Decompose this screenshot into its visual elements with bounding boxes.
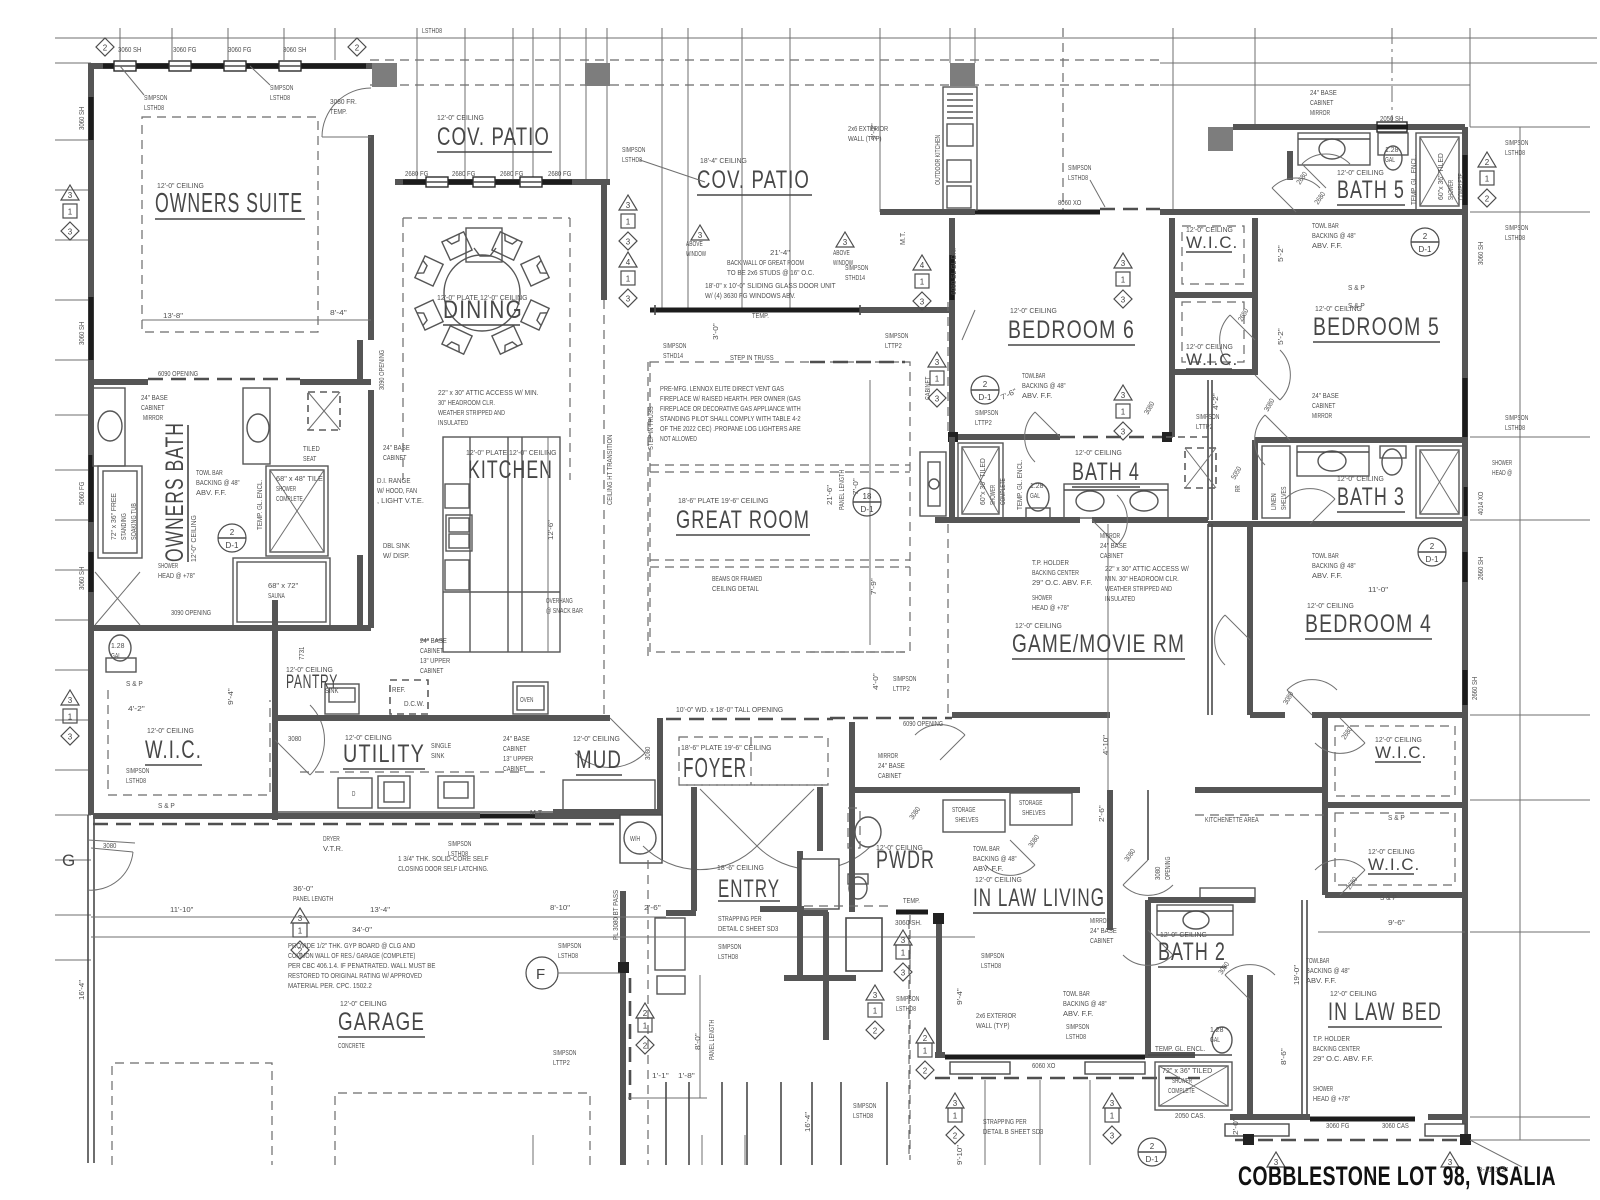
svg-text:3: 3 <box>1121 259 1126 268</box>
window 4014 XO right <box>1463 487 1468 516</box>
svg-text:4: 4 <box>920 261 925 270</box>
svg-text:12'-0" CEILING: 12'-0" CEILING <box>1160 930 1207 939</box>
svg-text:3060 SH: 3060 SH <box>1476 242 1485 265</box>
svg-text:OWNERS SUITE: OWNERS SUITE <box>155 187 303 218</box>
svg-text:3: 3 <box>68 733 73 742</box>
post: patio column C <box>950 63 975 86</box>
wall: bedroom6 south <box>952 434 1060 440</box>
svg-text:8'-4": 8'-4" <box>330 308 347 317</box>
svg-text:LSTHD8: LSTHD8 <box>896 1004 916 1013</box>
svg-text:3060 CAS: 3060 CAS <box>1382 1121 1409 1130</box>
svg-text:24" BASE: 24" BASE <box>1090 926 1117 935</box>
outdoor kitchen unit <box>943 87 977 210</box>
window 2050 SH <box>1377 122 1407 132</box>
bath5 door arcs <box>1272 188 1296 212</box>
wall: outdoor kitchen / north wall y212 <box>880 209 975 215</box>
svg-text:1: 1 <box>1110 1112 1115 1121</box>
svg-text:2: 2 <box>298 947 303 956</box>
svg-text:11'-0": 11'-0" <box>1368 585 1389 594</box>
svg-text:W.I.C.: W.I.C. <box>145 736 202 764</box>
svg-text:STORAGE: STORAGE <box>1019 800 1043 807</box>
svg-text:BACKING @ 48": BACKING @ 48" <box>196 478 240 487</box>
svg-text:9'-4": 9'-4" <box>955 988 964 1005</box>
svg-text:1: 1 <box>1121 408 1126 417</box>
svg-text:TILED: TILED <box>303 444 320 453</box>
svg-text:3: 3 <box>920 298 925 307</box>
svg-text:18: 18 <box>863 492 872 501</box>
svg-text:LTTP2: LTTP2 <box>885 341 902 350</box>
svg-text:12'-0" CEILING: 12'-0" CEILING <box>1010 306 1057 315</box>
svg-text:3060 SH: 3060 SH <box>77 567 86 590</box>
svg-text:1: 1 <box>643 1022 648 1031</box>
svg-text:DETAIL B SHEET SD3: DETAIL B SHEET SD3 <box>983 1127 1043 1136</box>
svg-text:1'-8": 1'-8" <box>678 1071 695 1080</box>
svg-text:REF.: REF. <box>392 685 405 694</box>
bath3 linen shelves <box>1262 446 1290 518</box>
svg-text:SIMPSON: SIMPSON <box>718 942 741 951</box>
wall: in-law living south + 6060 XO <box>935 1052 945 1058</box>
svg-text:SIMPSON: SIMPSON <box>853 1101 876 1110</box>
svg-text:11'-10": 11'-10" <box>170 905 194 914</box>
window glyph <box>224 61 246 71</box>
wall: bedroom5 south / bath3 north <box>1255 437 1465 443</box>
svg-text:HEAD @: HEAD @ <box>1492 468 1512 477</box>
owners bath vanity1 <box>93 388 125 466</box>
svg-text:BACK WALL OF GREAT ROOM: BACK WALL OF GREAT ROOM <box>727 258 804 267</box>
svg-text:BACKING CENTER: BACKING CENTER <box>1313 1044 1360 1053</box>
svg-text:SHOWER: SHOWER <box>1448 180 1455 200</box>
wire: patio roof dashed lines <box>370 59 1160 61</box>
svg-text:2: 2 <box>923 1034 928 1043</box>
svg-text:TEMP.: TEMP. <box>752 311 769 320</box>
svg-text:TEMP. GL. ENCL.: TEMP. GL. ENCL. <box>1155 1046 1205 1053</box>
window TEMP 3060SH <box>896 910 928 915</box>
svg-text:4'-0": 4'-0" <box>871 673 880 690</box>
svg-text:INSULATED: INSULATED <box>1105 594 1135 603</box>
sauna <box>233 558 330 626</box>
svg-text:TEMP.: TEMP. <box>903 896 920 905</box>
svg-text:D.I. RANGE: D.I. RANGE <box>377 476 411 485</box>
svg-text:1: 1 <box>68 208 73 217</box>
svg-text:CABINET: CABINET <box>383 453 407 462</box>
wall: hall south y718 <box>830 717 952 720</box>
bath2 shower <box>1155 1062 1232 1110</box>
svg-text:2660 SH: 2660 SH <box>1476 557 1485 580</box>
svg-text:SEAT: SEAT <box>303 454 317 463</box>
wall: wic/pantry divider <box>272 600 278 820</box>
svg-text:ABV. F.F.: ABV. F.F. <box>196 488 226 497</box>
bath5 toilet <box>1378 133 1408 155</box>
svg-text:D-1: D-1 <box>1419 245 1432 254</box>
dining dashed ceiling <box>402 218 404 480</box>
door arcs bath2 <box>1148 930 1173 955</box>
svg-text:4: 4 <box>626 258 631 267</box>
svg-text:24" BASE: 24" BASE <box>503 734 530 743</box>
bath4/hall pocket door dash <box>1166 436 1208 438</box>
svg-text:UTILITY: UTILITY <box>343 740 425 768</box>
door arc bedroom5 <box>1265 415 1290 440</box>
svg-text:SIMPSON: SIMPSON <box>622 145 645 154</box>
svg-text:18'-6" CEILING: 18'-6" CEILING <box>717 863 764 872</box>
svg-text:24" BASE: 24" BASE <box>1312 391 1339 400</box>
svg-text:T.P. HOLDER: T.P. HOLDER <box>1313 1034 1350 1043</box>
window glyph 2680 FG <box>426 177 448 187</box>
door arc bath3 <box>1310 499 1335 524</box>
svg-text:5'-2": 5'-2" <box>1276 245 1285 262</box>
svg-text:SOAKING TUB: SOAKING TUB <box>131 503 138 540</box>
svg-text:3: 3 <box>298 914 303 923</box>
svg-text:STANDING PILOT SHALL COMPLY WI: STANDING PILOT SHALL COMPLY WITH TABLE 4… <box>660 414 801 423</box>
wall: bedroom6 west <box>949 218 955 437</box>
wall: bath5 south <box>1290 209 1465 215</box>
wall: between bath2 and shower <box>1148 1054 1232 1056</box>
svg-text:BEDROOM 5: BEDROOM 5 <box>1313 313 1440 341</box>
svg-text:BACKING @ 48": BACKING @ 48" <box>973 854 1017 863</box>
svg-text:HEAD @ +78": HEAD @ +78" <box>1032 603 1069 612</box>
wall: bath4 hall east <box>1207 380 1209 520</box>
svg-text:2: 2 <box>1150 1142 1155 1151</box>
svg-text:7'-9": 7'-9" <box>869 578 878 595</box>
pantry sink <box>325 684 359 714</box>
svg-text:2'-6": 2'-6" <box>644 903 661 912</box>
wall: bath5 north <box>1233 124 1465 130</box>
svg-text:CABINET: CABINET <box>1100 551 1124 560</box>
dining table <box>444 255 520 331</box>
svg-text:W.I.C.: W.I.C. <box>1186 350 1238 369</box>
svg-text:SIMPSON: SIMPSON <box>885 331 908 340</box>
svg-text:MIRROR: MIRROR <box>878 751 898 760</box>
svg-text:CABINET: CABINET <box>503 744 527 753</box>
bath4 shower <box>958 443 1003 518</box>
svg-text:WALL (TYP): WALL (TYP) <box>976 1021 1010 1030</box>
svg-text:SIMPSON: SIMPSON <box>893 674 916 683</box>
wall: bedroom4 west <box>1247 524 1253 715</box>
svg-text:60"x 36" TILED: 60"x 36" TILED <box>1438 153 1445 200</box>
storage shelves boxes <box>943 800 1005 832</box>
svg-text:WINDOW: WINDOW <box>686 249 706 258</box>
svg-text:3: 3 <box>1121 391 1126 400</box>
svg-text:1: 1 <box>298 927 303 936</box>
svg-text:19'-0": 19'-0" <box>1292 964 1301 985</box>
svg-text:3-11 1/2": 3-11 1/2" <box>1478 1165 1509 1174</box>
wall: great room north sliding door <box>650 308 860 313</box>
wall: mud east / foyer west <box>657 718 663 860</box>
svg-text:12'-0" CEILING: 12'-0" CEILING <box>573 734 620 743</box>
svg-text:3060 SH.: 3060 SH. <box>895 918 922 927</box>
svg-text:TO BE 2x6 STUDS @ 16" O.C.: TO BE 2x6 STUDS @ 16" O.C. <box>727 268 814 277</box>
wall: in-law entry x1150 <box>1147 790 1149 860</box>
svg-text:24" BASE: 24" BASE <box>383 443 410 452</box>
svg-text:18'-0" x 10'-0" SLIDING GLASS: 18'-0" x 10'-0" SLIDING GLASS DOOR UNIT <box>705 281 836 290</box>
svg-text:10'-0" WD. x 18'-0" TALL OPENI: 10'-0" WD. x 18'-0" TALL OPENING <box>676 705 783 714</box>
svg-text:ABV. F.F.: ABV. F.F. <box>973 864 1003 873</box>
svg-text:5'-2": 5'-2" <box>1276 328 1285 345</box>
svg-text:4'-2": 4'-2" <box>128 704 145 713</box>
svg-text:STRAPPING PER: STRAPPING PER <box>718 914 762 923</box>
wall: owner entry east x800 <box>797 860 803 978</box>
svg-text:OPENING: OPENING <box>1165 857 1172 880</box>
svg-text:3060 SH: 3060 SH <box>77 322 86 345</box>
svg-text:7'-0": 7'-0" <box>851 478 860 495</box>
svg-text:SINGLE: SINGLE <box>431 741 451 750</box>
svg-text:3090 OPENING: 3090 OPENING <box>171 608 211 617</box>
svg-text:12'-0" CEILING: 12'-0" CEILING <box>1075 448 1122 457</box>
svg-text:D-1: D-1 <box>1146 1155 1159 1164</box>
svg-text:D-1: D-1 <box>979 393 992 402</box>
svg-text:COMPLETE: COMPLETE <box>1000 478 1007 505</box>
svg-text:COV. PATIO: COV. PATIO <box>437 123 550 151</box>
porch stoop rect <box>801 859 839 909</box>
svg-text:3: 3 <box>68 696 73 705</box>
bath4 toilet <box>1027 483 1049 511</box>
svg-text:BACKING @ 48": BACKING @ 48" <box>1312 561 1356 570</box>
door arc wic2 <box>1230 315 1255 340</box>
svg-text:GAL: GAL <box>1385 155 1395 164</box>
svg-text:9'-10": 9'-10" <box>955 1144 964 1165</box>
svg-text:6090 OPENING: 6090 OPENING <box>903 719 943 728</box>
window 5060 FG left <box>89 455 94 522</box>
svg-text:3: 3 <box>626 201 631 210</box>
svg-text:3: 3 <box>901 936 906 945</box>
svg-text:13" UPPER: 13" UPPER <box>420 656 450 665</box>
svg-text:12'-0" CEILING: 12'-0" CEILING <box>1186 342 1233 351</box>
attic access hall <box>1185 448 1216 488</box>
svg-text:S & P: S & P <box>126 679 143 688</box>
svg-text:3: 3 <box>626 238 631 247</box>
svg-text:FIREPLACE W/ RAISED HEARTH. PE: FIREPLACE W/ RAISED HEARTH. PER OWNER (G… <box>660 394 801 403</box>
wall: bath4 south <box>935 517 1080 523</box>
svg-text:12'-0" CEILING: 12'-0" CEILING <box>1368 847 1415 856</box>
dashed x909 <box>908 920 910 1160</box>
svg-text:24" BASE: 24" BASE <box>420 636 447 645</box>
F circle <box>526 957 558 989</box>
svg-text:@ SNACK BAR: @ SNACK BAR <box>546 606 583 615</box>
svg-text:1: 1 <box>923 1047 928 1056</box>
svg-text:1: 1 <box>901 949 906 958</box>
svg-text:1.28: 1.28 <box>1210 1025 1223 1034</box>
svg-text:SIMPSON: SIMPSON <box>126 766 149 775</box>
window sills bed5 <box>1225 1124 1289 1136</box>
svg-text:MIRROR: MIRROR <box>1100 531 1120 540</box>
svg-text:29" O.C. ABV. F.F.: 29" O.C. ABV. F.F. <box>1313 1054 1373 1063</box>
svg-text:D: D <box>352 791 355 798</box>
wall: wic east / bedroom5 west <box>1252 218 1258 375</box>
svg-text:CABINET: CABINET <box>878 771 902 780</box>
window 3060 SH left2 <box>89 297 94 360</box>
bath3 toilet <box>1382 449 1402 475</box>
wall: garage north <box>93 813 480 819</box>
svg-text:2050 SH: 2050 SH <box>1380 114 1403 123</box>
dim 13-8 / 8-4 <box>142 319 371 321</box>
svg-text:RESTORED TO ORIGINAL RATING W/: RESTORED TO ORIGINAL RATING W/ APPROVED <box>288 971 422 980</box>
bath5 shower <box>1416 133 1463 210</box>
wall: great room north east part <box>860 307 952 313</box>
bath5 toilet oval <box>1384 146 1402 170</box>
svg-text:DRYER: DRYER <box>323 834 340 843</box>
svg-text:3060 SH: 3060 SH <box>77 107 86 130</box>
great room ceiling dashes <box>650 362 910 652</box>
svg-text:21'-4": 21'-4" <box>770 248 791 257</box>
svg-text:D-1: D-1 <box>1426 555 1439 564</box>
svg-text:24" BASE: 24" BASE <box>1100 541 1127 550</box>
entry porch posts <box>655 918 685 970</box>
svg-text:COMPLETE: COMPLETE <box>1458 173 1465 200</box>
svg-text:1: 1 <box>68 713 73 722</box>
wall: owners suite top <box>91 63 372 69</box>
owners bath south walls <box>93 625 275 631</box>
entry south wall <box>666 910 696 916</box>
svg-text:SIMPSON: SIMPSON <box>558 941 581 950</box>
svg-text:12'-0" CEILING: 12'-0" CEILING <box>147 726 194 735</box>
svg-text:OF THE 2022 CEC) .PROPANE LOG: OF THE 2022 CEC) .PROPANE LOG LIGHTERS A… <box>660 424 801 433</box>
post: patio column B <box>585 63 610 86</box>
svg-text:6060 XO: 6060 XO <box>1032 1061 1056 1070</box>
window 3060 SH left <box>89 97 94 140</box>
svg-text:3080: 3080 <box>1153 867 1162 880</box>
wall: bath3 hall west <box>1252 440 1258 520</box>
svg-text:2: 2 <box>1423 232 1428 241</box>
garage door dashed 1 <box>112 1063 272 1165</box>
svg-text:LSTHD8: LSTHD8 <box>558 951 578 960</box>
wall: wic column lower west <box>1322 718 1328 895</box>
svg-text:3: 3 <box>935 395 940 404</box>
svg-text:3'-0": 3'-0" <box>711 323 720 340</box>
detail bubbles <box>218 524 246 552</box>
svg-text:2: 2 <box>103 44 108 53</box>
svg-text:PANEL LENGTH: PANEL LENGTH <box>293 894 333 903</box>
svg-text:MUD: MUD <box>576 746 622 774</box>
svg-text:24" BASE: 24" BASE <box>1310 88 1337 97</box>
window glyph <box>169 61 191 71</box>
bottom center verticals <box>665 1082 667 1165</box>
svg-text:2: 2 <box>873 1027 878 1036</box>
svg-text:7731: 7731 <box>297 647 306 660</box>
svg-text:G: G <box>62 851 76 870</box>
svg-text:SIMPSON: SIMPSON <box>1505 223 1528 232</box>
svg-text:TOWL BAR: TOWL BAR <box>196 468 223 477</box>
svg-text:M.T.: M.T. <box>530 808 543 817</box>
svg-text:INSULATED: INSULATED <box>438 418 468 427</box>
svg-text:SHELVES: SHELVES <box>955 817 979 824</box>
owners suite ceiling dashes <box>142 117 318 332</box>
svg-text:GAME/MOVIE RM: GAME/MOVIE RM <box>1012 630 1185 658</box>
window 2660 SH bed4 <box>1463 670 1468 705</box>
svg-text:SHELVES: SHELVES <box>1281 486 1288 510</box>
door arc wic4 <box>1340 870 1365 895</box>
svg-text:3: 3 <box>843 238 848 247</box>
svg-text:STANDING: STANDING <box>121 513 128 540</box>
svg-text:2680 FG: 2680 FG <box>452 169 476 178</box>
svg-text:12'-0" CEILING: 12'-0" CEILING <box>437 113 484 122</box>
svg-text:W/ DISP.: W/ DISP. <box>383 551 410 560</box>
wall: in-law bed south <box>1230 1114 1310 1120</box>
door arc: owners suite entry 3080 <box>322 136 371 138</box>
wall: in-law bed west <box>1301 900 1303 1117</box>
owners bath north wall <box>93 379 148 385</box>
svg-text:3060 FG: 3060 FG <box>228 45 252 54</box>
svg-text:MIN. 30" HEADROOM CLR.: MIN. 30" HEADROOM CLR. <box>1105 574 1179 583</box>
wall: bath3 south <box>1208 521 1465 527</box>
svg-text:TEMP. GL. ENCL.: TEMP. GL. ENCL. <box>257 480 264 530</box>
wall: bedroom4 south <box>1250 712 1285 718</box>
svg-text:1: 1 <box>953 1112 958 1121</box>
svg-text:1'-1": 1'-1" <box>652 1071 669 1080</box>
bath3 shower <box>1416 446 1463 518</box>
svg-text:24" BASE: 24" BASE <box>878 761 905 770</box>
svg-text:22" x 30" ATTIC ACCESS W/: 22" x 30" ATTIC ACCESS W/ <box>1105 564 1190 573</box>
svg-text:SHOWER: SHOWER <box>990 485 997 505</box>
window 2660 SH right <box>1463 552 1468 582</box>
wall: bath2 north <box>1148 897 1255 903</box>
svg-text:MIRROR: MIRROR <box>1090 916 1110 925</box>
door arc game room <box>1225 615 1250 640</box>
svg-text:TOWL BAR: TOWL BAR <box>1063 989 1090 998</box>
svg-text:1: 1 <box>935 375 940 384</box>
door: utility->garage <box>480 814 535 819</box>
svg-text:2: 2 <box>983 380 988 389</box>
window sills in-law <box>950 1062 1010 1074</box>
svg-text:PL 3080 BT PASS: PL 3080 BT PASS <box>613 890 620 940</box>
svg-text:W.I.C.: W.I.C. <box>1368 855 1420 874</box>
svg-text:TEMP.: TEMP. <box>330 107 347 116</box>
wic3 dashes <box>1335 726 1455 796</box>
svg-text:2x6 EXTERIOR: 2x6 EXTERIOR <box>976 1011 1016 1020</box>
mud bench <box>563 780 655 812</box>
entry vestibule walls <box>691 851 697 911</box>
svg-text:V.T.R.: V.T.R. <box>323 844 343 853</box>
svg-text:8060 XO: 8060 XO <box>1058 198 1082 207</box>
svg-text:TEMP. GL. ENCL.: TEMP. GL. ENCL. <box>1411 155 1418 205</box>
svg-text:18'-6" PLATE 19'-6" CEILING: 18'-6" PLATE 19'-6" CEILING <box>678 496 769 505</box>
svg-text:KITCHEN: KITCHEN <box>468 456 553 484</box>
svg-text:STEP IN TRUSS: STEP IN TRUSS <box>646 406 655 450</box>
wall y909 <box>760 906 804 912</box>
svg-text:2: 2 <box>1485 195 1490 204</box>
svg-text:CABINET: CABINET <box>1312 401 1336 410</box>
svg-text:72" x 36" FREE: 72" x 36" FREE <box>111 493 118 540</box>
svg-text:12'-0" CEILING: 12'-0" CEILING <box>1015 621 1062 630</box>
svg-text:8'-0": 8'-0" <box>693 1033 702 1050</box>
svg-text:24" BASE: 24" BASE <box>141 393 168 402</box>
svg-text:3: 3 <box>1121 428 1126 437</box>
wall: dining east <box>601 182 607 300</box>
svg-text:CABINET: CABINET <box>1310 98 1334 107</box>
svg-text:SIMPSON: SIMPSON <box>1505 138 1528 147</box>
wall: right exterior <box>1462 127 1468 1140</box>
kitchen appliances <box>445 484 469 508</box>
svg-text:2'-0": 2'-0" <box>1231 1118 1240 1135</box>
svg-text:GAL: GAL <box>1210 1035 1220 1044</box>
svg-text:SHOWER: SHOWER <box>1492 458 1512 467</box>
svg-text:BACKING @ 48": BACKING @ 48" <box>1312 231 1356 240</box>
wall: pwdr west <box>849 722 855 912</box>
svg-text:3: 3 <box>1110 1099 1115 1108</box>
svg-text:OUTDOOR KITCHEN: OUTDOOR KITCHEN <box>933 135 942 185</box>
wall: in-law west x939 <box>936 918 942 1055</box>
svg-text:GAL: GAL <box>1030 491 1040 500</box>
svg-text:CABINET: CABINET <box>420 646 444 655</box>
svg-text:SIMPSON: SIMPSON <box>975 408 998 417</box>
svg-text:3060 SH: 3060 SH <box>283 45 306 54</box>
svg-text:3060 FG: 3060 FG <box>173 45 197 54</box>
svg-text:2: 2 <box>1430 542 1435 551</box>
owners shower <box>266 466 328 556</box>
bath5 vanity <box>1298 133 1370 165</box>
svg-text:3080: 3080 <box>103 841 116 850</box>
svg-text:FIREPLACE OR DECORATIVE GAS AP: FIREPLACE OR DECORATIVE GAS APPLIANCE WI… <box>660 404 801 413</box>
svg-text:ABV. F.F.: ABV. F.F. <box>1063 1009 1093 1018</box>
svg-text:GREAT ROOM: GREAT ROOM <box>676 506 810 534</box>
